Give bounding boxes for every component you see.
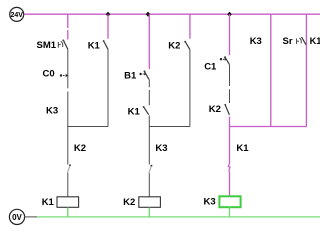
wire: column5 drop from rail to C1 (live magenta) — [229, 14, 231, 55]
wire: column4 down to rung2 join — [189, 50, 191, 127]
wire: column2 drop from rail (live magenta) — [107, 14, 109, 39]
svg-text:K3: K3 — [46, 106, 58, 117]
relay contact K2 (NO, open) seal-in branch rung2 — [168, 41, 190, 52]
svg-text:K1: K1 — [88, 41, 101, 52]
wire: column3 node down to K3 contact — [148, 127, 150, 165]
wire: column5 C1 to K2 contact — [229, 64, 231, 86]
coil K2 — [123, 197, 160, 208]
svg-text:K1: K1 — [42, 197, 55, 208]
svg-text:K2: K2 — [123, 197, 135, 208]
wire: column1 C0 to K3 contact (closed) and down to rung node — [67, 92, 69, 128]
coil K1 — [42, 197, 79, 208]
wire: column3 K1 contact down to rung2 join — [148, 116, 150, 127]
wire: rung2 horizontal join at y=126.5 — [149, 126, 190, 128]
svg-text:K1: K1 — [128, 107, 141, 118]
wire: bottom 0V rail (green) — [37, 216, 320, 218]
wire: column6 drop, relay contact K3 (closed, conducting) full drop to rung3 join — [250, 14, 271, 126]
wire: column4 drop from rail (live magenta) — [189, 14, 191, 39]
svg-text:C1: C1 — [204, 61, 217, 72]
svg-text:K3: K3 — [155, 143, 167, 154]
wire: column1 K2 contact to K1 coil — [67, 173, 69, 197]
relay contact K1 (NO, open) seal-in branch — [88, 40, 108, 51]
wire: column1 drop from rail to SM1 (live magenta, small gap at 28.5) — [67, 14, 69, 28]
relay contact K1 (NO, open) in rung2 — [128, 106, 149, 117]
wire: column5 coil K3 to 0V rail (green) — [229, 207, 231, 217]
svg-text:SM1: SM1 — [37, 40, 57, 51]
svg-text:0V: 0V — [12, 213, 22, 222]
node junction dot on rail at x=229.5 — [227, 12, 232, 17]
coil K3 (energized, green) — [204, 196, 241, 207]
relay contact K2 (NO, open) in rung3 — [209, 104, 230, 115]
wire: top 24V rail — [24, 13, 320, 15]
wire: column3 B1 to K1 contact — [148, 79, 150, 87]
wire: column5 node down to K1 contact (live magenta) — [229, 127, 231, 163]
svg-text:K2: K2 — [209, 104, 221, 115]
svg-text:K1: K1 — [236, 143, 249, 154]
wire: rung3 horizontal join at y=126.5 (live magenta) — [230, 126, 307, 128]
wire: column3 drop from rail to B1 (live magenta) — [148, 14, 150, 69]
wire: column2 down to rung1 join — [107, 49, 109, 126]
24V supply terminal — [10, 7, 24, 21]
svg-text:K3: K3 — [204, 197, 216, 208]
pushbutton contact SM1 (NO, open) — [37, 40, 68, 51]
wire: 0V terminal lead (dark) — [24, 216, 37, 218]
limit switch contact C0 (closed) with actuator arrow — [43, 69, 69, 80]
relay contact K2 (NO, open) above K1 coil — [67, 143, 86, 173]
relay contact K1 (closed, conducting) above K3 coil — [228, 143, 249, 171]
wire: rung1 horizontal join at y=126.5 — [68, 126, 108, 128]
wire: column3 K3 contact to K2 coil — [148, 173, 150, 197]
svg-text:K2: K2 — [168, 41, 180, 52]
node junction dot on rail at x=108 — [106, 12, 111, 17]
0V supply terminal — [9, 209, 24, 224]
wire: column5 below K2 to rung3 join (live magenta) — [229, 117, 231, 127]
wire: column3 coil K2 to 0V rail (green) — [148, 207, 150, 217]
svg-text:K3: K3 — [250, 36, 262, 47]
wire: column5 K1 contact to K3 coil (live magenta) — [229, 171, 231, 196]
wire: column7 drop (live magenta, full) — [305, 14, 307, 126]
svg-text:B1: B1 — [124, 71, 137, 82]
svg-text:K2: K2 — [74, 143, 86, 154]
wire: column1 coil K1 to 0V rail (green) — [67, 207, 69, 217]
svg-text:K1: K1 — [310, 36, 320, 46]
node junction dot on rail at x=148 — [146, 12, 151, 17]
svg-text:C0: C0 — [43, 69, 55, 80]
wire: column1 SM1 to C0 — [67, 49, 69, 88]
svg-text:24V: 24V — [10, 12, 23, 19]
pushbutton contact Sr (closed, pressed) — [283, 36, 306, 47]
svg-text:Sr: Sr — [283, 36, 293, 47]
sensor contact C1 (NO, open) with actuator arrow — [204, 56, 229, 72]
relay contact K3 (NO, open) above K2 coil — [149, 143, 168, 173]
sensor contact B1 (NO, open) with actuator arrow — [124, 71, 149, 82]
wire: column1 node down to K2 contact — [67, 127, 69, 165]
